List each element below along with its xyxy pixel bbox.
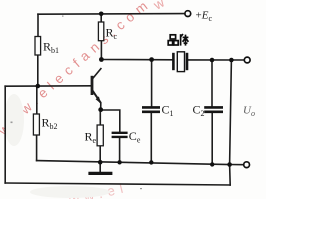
watermark www.elecfans.com main diagonal — [0, 0, 172, 212]
wire left rail — [4, 86, 6, 183]
wire Rc top lead — [100, 13, 102, 22]
node collector — [99, 57, 104, 62]
svg-text:+Ec: +Ec — [196, 10, 213, 24]
wire Re bottom lead — [99, 146, 101, 162]
wire crystal to output node — [187, 59, 244, 61]
node base / Rb1 Rb2 — [36, 84, 41, 89]
terminal output bottom — [244, 162, 250, 168]
node dots — [36, 12, 234, 167]
node C2 rail — [210, 162, 214, 166]
crystal XT — [173, 52, 187, 72]
wire C1 bottom lead — [150, 113, 152, 163]
svg-text:C2: C2 — [193, 103, 205, 119]
svg-text:Re: Re — [85, 130, 97, 146]
capacitor Ce — [112, 133, 128, 137]
node output top — [229, 58, 234, 63]
wire Rb2 top lead — [36, 86, 38, 114]
wire output bottom tap — [230, 164, 244, 166]
terminal output top — [244, 57, 250, 63]
wire Rc bottom lead — [100, 41, 102, 60]
svg-text:Ce: Ce — [129, 129, 141, 145]
resistor Rb1 — [35, 37, 41, 56]
node C1 top — [149, 57, 154, 62]
wire common rail — [37, 161, 230, 165]
node emitter — [98, 107, 103, 112]
wire ground stub — [99, 162, 101, 172]
wire C2 bottom lead — [211, 113, 213, 165]
node Ce rail — [117, 160, 121, 164]
transistor Q1 — [92, 68, 101, 110]
wire bottom rail — [5, 183, 230, 185]
label crystal 晶体 (drawn glyphs) — [168, 34, 188, 46]
wire top rail — [38, 13, 185, 16]
wire base — [5, 85, 91, 87]
wire Re top lead — [99, 110, 101, 126]
terminal Ec — [185, 11, 191, 17]
晶 — [170, 35, 175, 39]
scan speckles — [11, 16, 143, 190]
wire Rb2 bottom lead — [36, 135, 38, 161]
svg-text:Uo: Uo — [243, 105, 255, 119]
node Re ground — [98, 160, 103, 165]
node top rail / Rc — [99, 12, 104, 17]
node C2 top — [210, 58, 215, 63]
svg-text:Rb1: Rb1 — [43, 40, 59, 56]
node C1 rail — [149, 160, 153, 164]
svg-text:C1: C1 — [162, 103, 174, 119]
resistor Re — [97, 125, 103, 146]
svg-text:Rb2: Rb2 — [42, 116, 58, 132]
wire Rb1 top lead — [37, 14, 39, 36]
wire emitter to Ce branch — [101, 110, 120, 132]
wire right rail — [230, 60, 232, 185]
resistor Rb2 — [33, 114, 39, 135]
wire C2 top lead — [211, 60, 213, 106]
wire C1 top lead — [151, 60, 153, 106]
ground — [88, 172, 112, 175]
体 — [180, 34, 182, 45]
resistor Rc — [98, 22, 103, 41]
node output bottom junction — [227, 162, 232, 167]
capacitor C2 — [204, 107, 223, 111]
wire Rb1 bottom lead — [37, 55, 39, 87]
wire collector node to crystal — [101, 59, 173, 61]
wire Ce bottom lead — [119, 138, 121, 163]
capacitor C1 — [142, 107, 160, 111]
